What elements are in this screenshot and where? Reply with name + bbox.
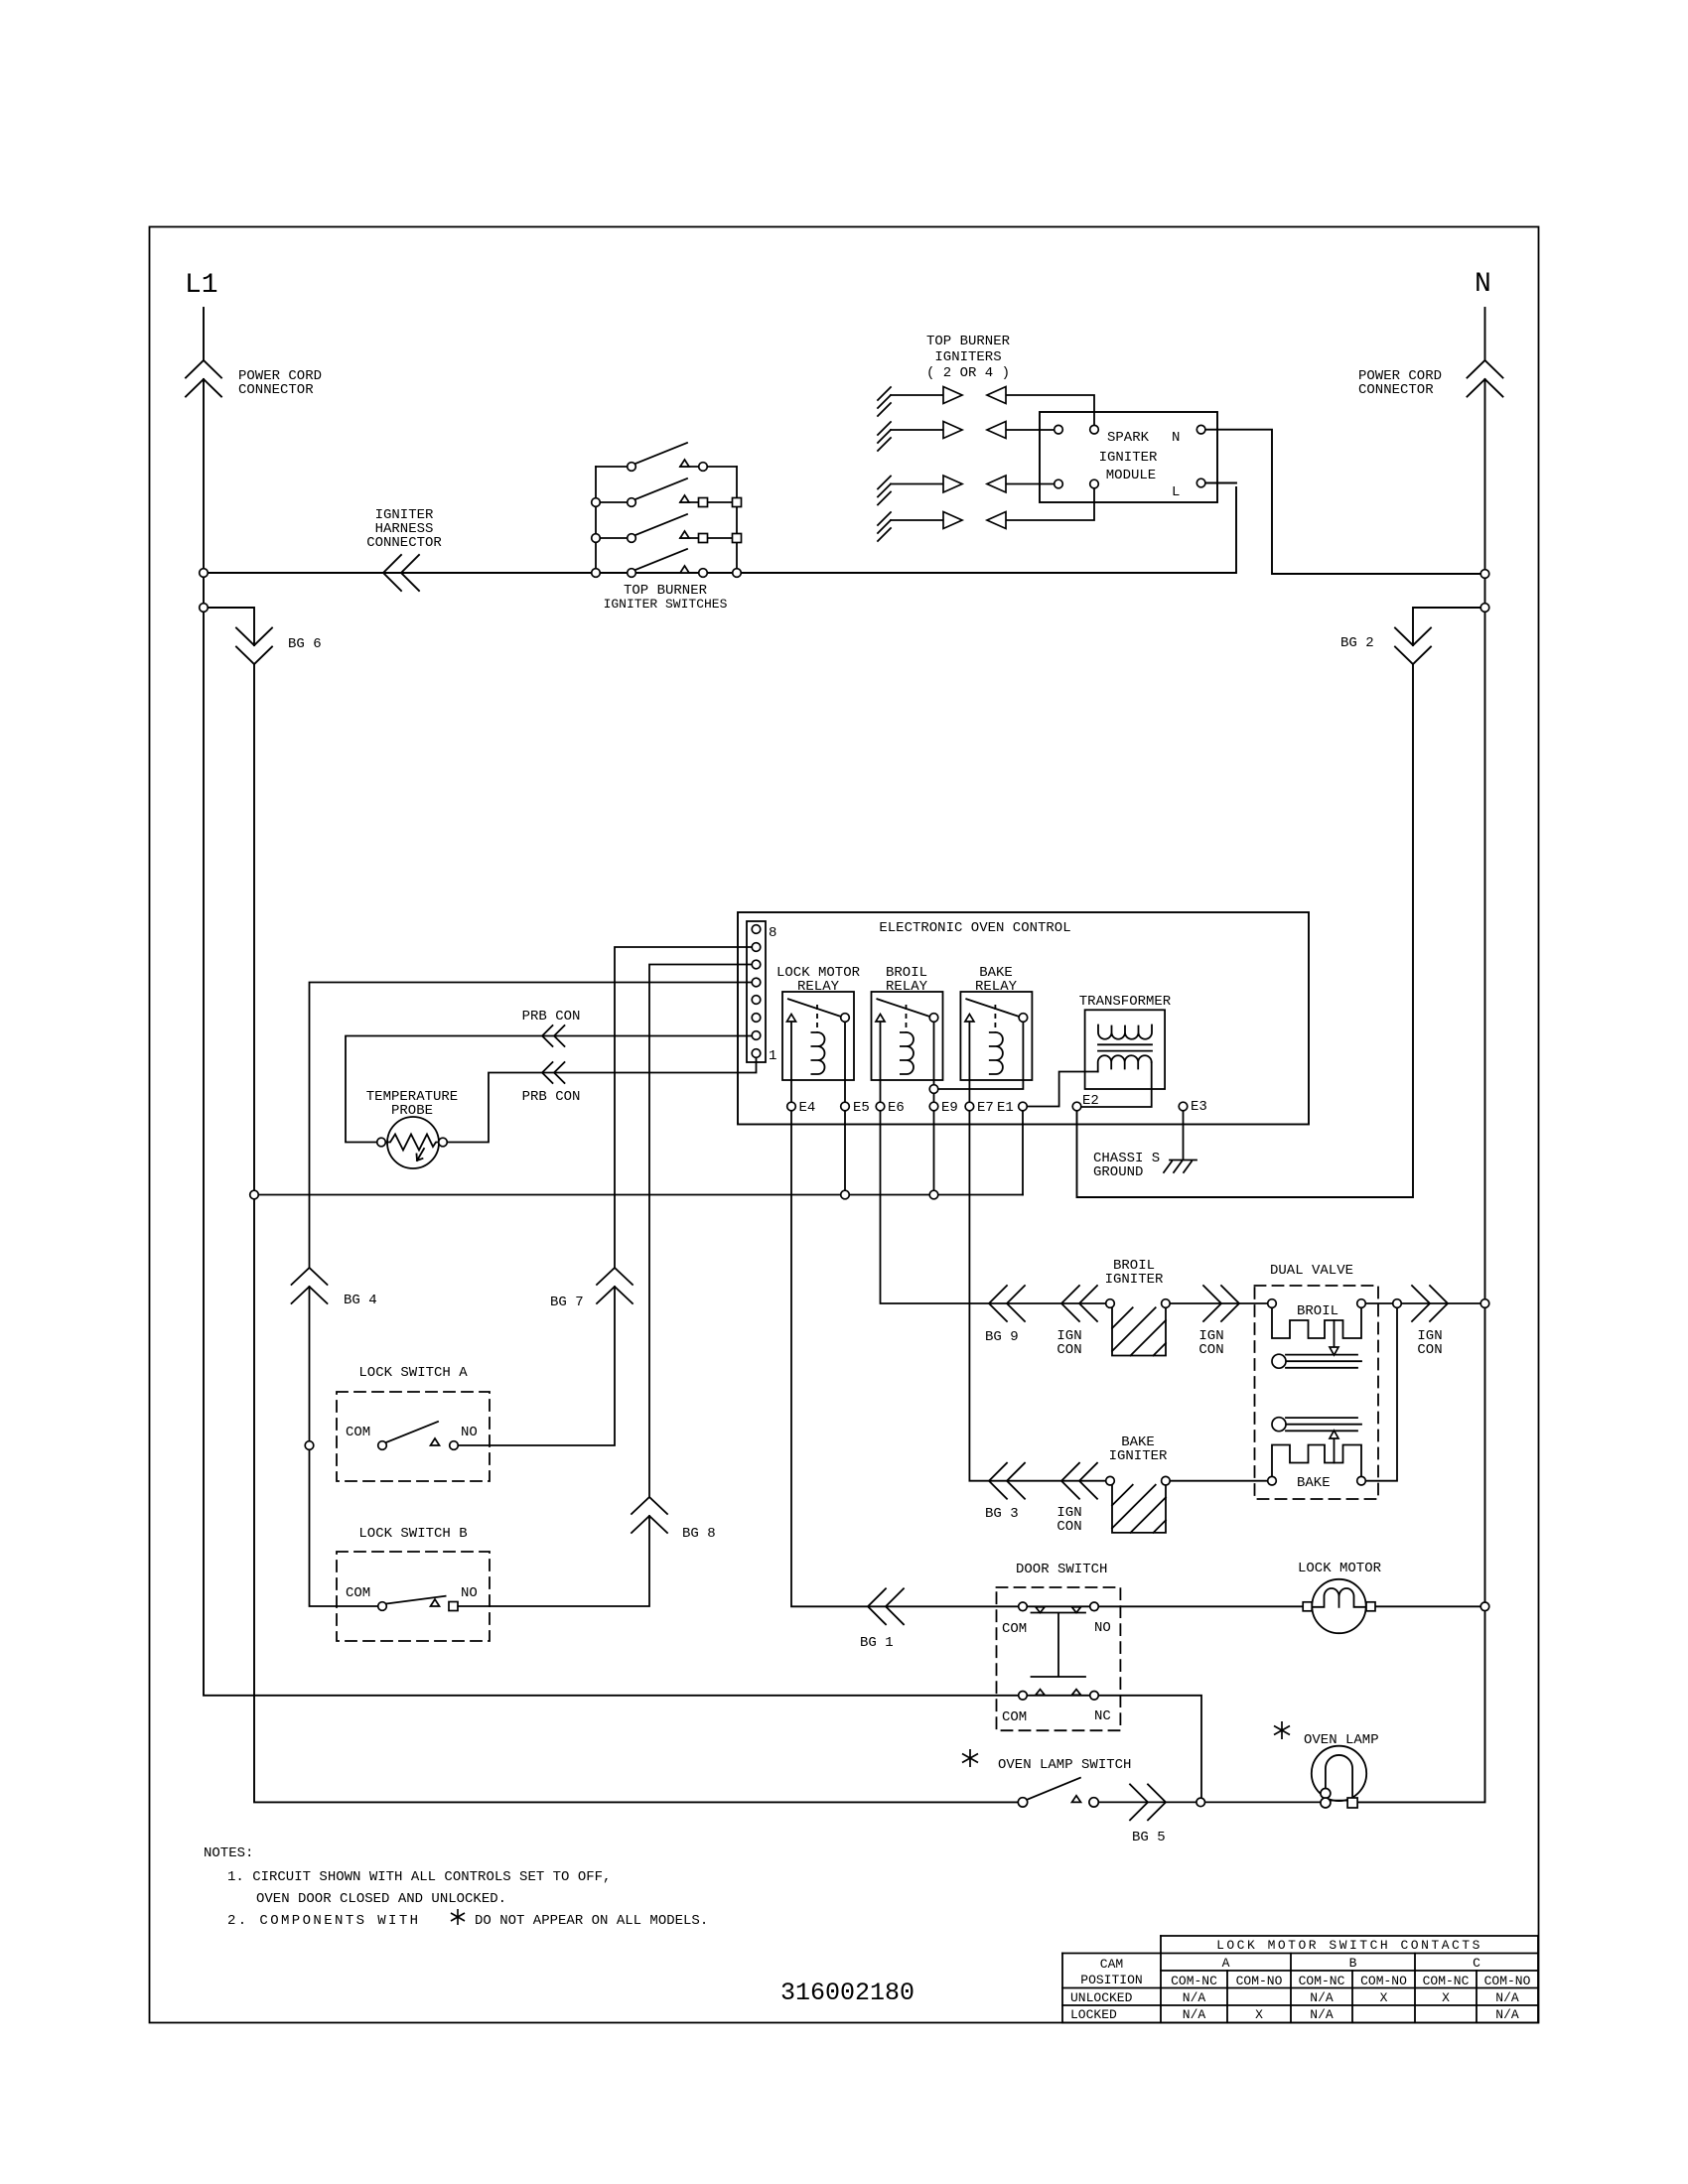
svg-text:1: 1 xyxy=(769,1048,776,1064)
lock motor terminals xyxy=(1303,1602,1312,1611)
svg-text:CONNECTOR: CONNECTOR xyxy=(238,382,314,398)
module terminal L xyxy=(1196,478,1205,487)
chassis ground symbol xyxy=(1164,1160,1196,1173)
node inner bus y1203 xyxy=(250,1190,259,1199)
svg-text:COM: COM xyxy=(1002,1621,1027,1637)
terminal E4 xyxy=(787,1102,796,1111)
svg-text:LOCK MOTOR SWITCH CONTACTS: LOCK MOTOR SWITCH CONTACTS xyxy=(1216,1938,1482,1953)
terminal E5 xyxy=(841,1102,850,1111)
svg-text:RELAY: RELAY xyxy=(886,979,928,995)
svg-text:E3: E3 xyxy=(1191,1099,1207,1115)
switch terminal circles/squares right xyxy=(699,463,708,472)
svg-text:IGNITER: IGNITER xyxy=(1105,1272,1164,1288)
svg-text:N/A: N/A xyxy=(1183,2007,1206,2022)
svg-text:PRB CON: PRB CON xyxy=(522,1009,581,1024)
svg-text:COM-NC: COM-NC xyxy=(1171,1974,1217,1988)
svg-text:N/A: N/A xyxy=(1183,1990,1206,2005)
svg-text:2. COMPONENTS WITH: 2. COMPONENTS WITH xyxy=(227,1913,420,1929)
oven lamp switch blade xyxy=(1028,1778,1080,1800)
svg-text:BG 4: BG 4 xyxy=(344,1293,377,1308)
module terminal N xyxy=(1196,425,1205,434)
door switch bottom triangles (up) xyxy=(1036,1690,1045,1696)
wire relay2 common to E9 xyxy=(933,1022,935,1102)
node at valve right xyxy=(1393,1299,1402,1308)
svg-text:TOP BURNER: TOP BURNER xyxy=(926,334,1011,349)
svg-text:NO: NO xyxy=(1094,1620,1111,1636)
power cord connector right (double chevron up) xyxy=(1468,360,1503,397)
lock switch A terminals xyxy=(378,1441,387,1450)
transformer primary winding xyxy=(1098,1025,1152,1039)
svg-text:COM: COM xyxy=(346,1425,370,1440)
wire lock motor to right bus xyxy=(1375,1605,1480,1607)
svg-text:E2: E2 xyxy=(1082,1093,1099,1109)
wire E3 to chassis ground xyxy=(1183,1111,1185,1160)
igniter switch row 4 xyxy=(635,549,687,570)
svg-text:8: 8 xyxy=(769,925,776,941)
node L1 stub xyxy=(200,604,209,613)
bank bus nodes xyxy=(592,498,601,507)
wire igniter row 1 xyxy=(891,395,1094,425)
svg-text:B: B xyxy=(1349,1956,1357,1971)
probe resistor zigzag xyxy=(385,1135,438,1151)
svg-text:N/A: N/A xyxy=(1495,1990,1519,2005)
wire E7 down to bake igniter row xyxy=(969,1111,1105,1481)
wire igniter row 3 xyxy=(891,483,1055,485)
electronic oven control box xyxy=(738,912,1309,1125)
wire door switch top row between contacts xyxy=(1027,1605,1089,1607)
svg-text:CAM: CAM xyxy=(1100,1957,1123,1972)
svg-text:UNLOCKED: UNLOCKED xyxy=(1070,1990,1133,2005)
dual valve xyxy=(1255,1286,1481,1499)
wire bank left bus xyxy=(595,467,597,573)
connector BG 1 (double chevron left) xyxy=(868,1588,904,1624)
svg-text:E1: E1 xyxy=(997,1100,1014,1116)
transformer secondary winding xyxy=(1098,1055,1152,1071)
broil valve actuator arrow xyxy=(1334,1320,1336,1347)
bake valve actuator arrow xyxy=(1334,1438,1336,1463)
svg-text:X: X xyxy=(1442,1990,1450,2005)
svg-text:COM: COM xyxy=(1002,1709,1027,1725)
node main bus at L1 xyxy=(200,569,209,578)
terminal E7 xyxy=(965,1102,974,1111)
connector BG 2 (double chevron down) xyxy=(1395,628,1431,665)
svg-text:L1: L1 xyxy=(185,270,218,301)
node N bus lock motor row xyxy=(1480,1602,1489,1611)
junction node above E9 xyxy=(929,1085,938,1094)
wire right bus N down to oven lamp row xyxy=(1357,379,1484,1802)
svg-text:NO: NO xyxy=(461,1425,478,1440)
wire broil igniter to dual valve xyxy=(1170,1302,1268,1304)
wire L1 left bus upper segment xyxy=(203,308,205,360)
svg-text:BROIL: BROIL xyxy=(1297,1303,1338,1319)
wire pin 7 to PRB CON to probe left xyxy=(346,1036,752,1143)
wire E1 down to bus xyxy=(1022,1111,1024,1195)
valve arrowheads xyxy=(1330,1347,1338,1355)
connector BG 9 (double chevron left) xyxy=(989,1286,1025,1321)
svg-text:NO: NO xyxy=(461,1585,478,1601)
svg-text:OVEN DOOR CLOSED AND UNLOCKED.: OVEN DOOR CLOSED AND UNLOCKED. xyxy=(256,1891,506,1907)
wire E9 down to bus xyxy=(933,1111,935,1195)
door switch plunger triangles (down) xyxy=(1036,1607,1045,1613)
svg-text:CONNECTOR: CONNECTOR xyxy=(1358,382,1434,398)
igniter electrode comb row 4 xyxy=(878,512,891,541)
svg-text:E4: E4 xyxy=(799,1100,816,1116)
svg-text:IGNITER: IGNITER xyxy=(1099,450,1158,466)
wire bus y1203 xyxy=(254,1194,1023,1196)
svg-text:DUAL VALVE: DUAL VALVE xyxy=(1270,1263,1353,1279)
wire door NO to lock motor xyxy=(1098,1605,1303,1607)
wire bake igniter to dual valve xyxy=(1170,1480,1268,1482)
oven lamp DS1 xyxy=(1312,1746,1366,1801)
svg-text:PRB CON: PRB CON xyxy=(522,1089,581,1105)
asterisk (oven lamp switch) xyxy=(962,1749,978,1767)
connector PRB CON upper (double chevron left) xyxy=(542,1025,565,1046)
wire BG2 down to E2 feed xyxy=(1077,664,1414,1197)
wire relay3 common to E9 node xyxy=(938,1022,1024,1089)
wire relay3 coil to E7 xyxy=(968,1080,970,1102)
wire relay1 common to E5 xyxy=(844,1022,846,1102)
connector igniter harness (double chevron left) on main bus xyxy=(383,555,419,591)
connector PRB CON lower (double chevron left) xyxy=(542,1062,565,1083)
bake igniter terminals xyxy=(1106,1476,1115,1485)
wire broil valve out to right bus xyxy=(1365,1302,1480,1304)
wire door NC down to lamp row node xyxy=(1098,1696,1201,1798)
svg-text:COM-NC: COM-NC xyxy=(1299,1974,1345,1988)
wire pin 4 to BG4 to lock switches xyxy=(310,983,753,1607)
svg-text:IGNITER: IGNITER xyxy=(1109,1448,1168,1464)
wire stub node to inner bus BG6 xyxy=(204,608,254,645)
node N bus y612 xyxy=(1480,604,1489,613)
svg-text:POSITION: POSITION xyxy=(1080,1973,1142,1987)
svg-text:IGNITERS: IGNITERS xyxy=(934,349,1001,365)
lock switch B xyxy=(337,1552,490,1641)
svg-text:A: A xyxy=(1222,1956,1230,1971)
relay K3 bake relay xyxy=(960,992,1032,1080)
svg-text:NC: NC xyxy=(1094,1708,1111,1724)
svg-text:MODULE: MODULE xyxy=(1106,468,1156,483)
transformer core xyxy=(1098,1044,1152,1050)
node N bus y578 xyxy=(1480,570,1489,579)
wire door switch bottom row between contacts xyxy=(1027,1695,1089,1697)
svg-text:316002180: 316002180 xyxy=(780,1979,914,2007)
switch contact triangles rows 1-4 xyxy=(680,460,689,467)
lock switch B blade xyxy=(386,1596,446,1604)
connector BG 6 (double chevron down) xyxy=(236,628,272,665)
oven lamp switch xyxy=(1028,1778,1321,1821)
node N bus broil row xyxy=(1480,1299,1489,1308)
svg-text:SPARK: SPARK xyxy=(1107,430,1150,446)
svg-text:ELECTRONIC OVEN CONTROL: ELECTRONIC OVEN CONTROL xyxy=(879,920,1070,936)
lock switch A xyxy=(337,1392,490,1481)
connector BG 4 (double chevron up) xyxy=(292,1268,328,1303)
svg-text:COM-NO: COM-NO xyxy=(1236,1974,1283,1988)
connector BG 8 (double chevron up) xyxy=(632,1497,667,1533)
connector BG 3 (double chevron left) xyxy=(989,1463,1025,1499)
svg-text:GROUND: GROUND xyxy=(1093,1164,1143,1180)
spark igniter module U1 xyxy=(1040,412,1217,502)
svg-text:CON: CON xyxy=(1198,1342,1223,1358)
svg-text:( 2 OR 4 ): ( 2 OR 4 ) xyxy=(926,365,1010,381)
svg-text:BG 3: BG 3 xyxy=(985,1506,1019,1522)
svg-text:COM-NC: COM-NC xyxy=(1423,1974,1470,1988)
transformer T1 xyxy=(254,1010,1196,1624)
svg-text:COM-NO: COM-NO xyxy=(1484,1974,1531,1988)
igniter switch row 1 xyxy=(596,443,737,467)
gas pipe circles xyxy=(1272,1354,1286,1368)
svg-text:LOCK SWITCH B: LOCK SWITCH B xyxy=(358,1526,467,1542)
lock switch B terminals xyxy=(378,1602,387,1611)
svg-text:E7: E7 xyxy=(977,1100,994,1116)
wire pin 1 to PRB CON to probe right xyxy=(447,1057,756,1142)
probe terminals xyxy=(377,1138,386,1147)
svg-text:CON: CON xyxy=(1056,1519,1081,1535)
svg-text:E6: E6 xyxy=(888,1100,905,1116)
wire relay2 coil to E6 xyxy=(880,1080,882,1102)
svg-text:RELAY: RELAY xyxy=(975,979,1018,995)
svg-text:CONNECTOR: CONNECTOR xyxy=(366,535,442,551)
wire spark module N lead to right bus xyxy=(1205,430,1485,574)
terminal E6 xyxy=(876,1102,885,1111)
module terminals xyxy=(1055,425,1063,434)
svg-text:L: L xyxy=(1172,484,1180,500)
probe thermistor arrow xyxy=(417,1149,425,1160)
svg-text:RELAY: RELAY xyxy=(797,979,840,995)
temperature probe RT1 xyxy=(385,1117,439,1168)
lamp filament horseshoe xyxy=(1326,1755,1352,1798)
svg-text:COM-NO: COM-NO xyxy=(1360,1974,1407,1988)
table lock motor switch contacts xyxy=(1062,1936,1538,2023)
broil igniter element xyxy=(1112,1286,1268,1356)
svg-text:X: X xyxy=(1255,2007,1263,2022)
broil igniter terminals xyxy=(1106,1299,1115,1308)
wire lamp switch to lamp xyxy=(1098,1801,1321,1803)
svg-text:C: C xyxy=(1473,1956,1480,1971)
connector IGN CON broil left (double chevron left) xyxy=(1061,1286,1097,1321)
svg-text:BG 1: BG 1 xyxy=(860,1635,894,1651)
connector IGN CON bake left (double chevron left) xyxy=(1061,1463,1097,1499)
terminal E2 xyxy=(1072,1102,1081,1111)
svg-text:BG 9: BG 9 xyxy=(985,1329,1019,1345)
connector J1 (8 pin) xyxy=(747,921,766,1062)
bake valve solenoid xyxy=(1272,1445,1361,1477)
wire pin 3 to BG8 to lock switch B NO xyxy=(458,965,752,1607)
svg-text:BG 6: BG 6 xyxy=(288,636,322,652)
igniter switch row 2 xyxy=(596,478,737,502)
svg-text:BAKE: BAKE xyxy=(1297,1475,1331,1491)
asterisk (note 2) xyxy=(451,1909,465,1925)
connector IGN CON valve right (double chevron right) xyxy=(1412,1286,1448,1321)
relay common contact circles xyxy=(841,1014,850,1023)
svg-text:BG 5: BG 5 xyxy=(1132,1830,1166,1845)
wire relay1 coil to E4 xyxy=(790,1080,792,1102)
svg-text:N: N xyxy=(1172,430,1180,446)
node lamp row xyxy=(1196,1798,1205,1807)
svg-text:CON: CON xyxy=(1417,1342,1442,1358)
wire valve node down to bake row xyxy=(1365,1307,1397,1480)
wire E5 down to bus xyxy=(844,1111,846,1195)
lock switch A blade xyxy=(386,1422,438,1442)
connector IGN CON broil right (double chevron right) xyxy=(1203,1286,1239,1321)
relay K1 lock motor relay xyxy=(782,992,854,1080)
lock motor M1 xyxy=(1312,1579,1366,1633)
svg-text:BG 7: BG 7 xyxy=(550,1295,584,1310)
connector BG 7 (double chevron up) xyxy=(597,1268,633,1303)
terminal E3 xyxy=(1179,1102,1188,1111)
svg-text:OVEN LAMP: OVEN LAMP xyxy=(1304,1732,1379,1748)
node on BG4 at lock switch A xyxy=(305,1441,314,1450)
terminal E9 xyxy=(929,1102,938,1111)
node E9 bus xyxy=(929,1190,938,1199)
svg-text:N: N xyxy=(1475,269,1491,300)
relay armature triangles xyxy=(787,1015,796,1023)
svg-text:N/A: N/A xyxy=(1310,1990,1334,2005)
door switch bottom terminals COM / NC xyxy=(1019,1692,1028,1701)
wire main bus L1 row y577 to spark module L lead xyxy=(204,483,1236,574)
bake igniter element xyxy=(1112,1481,1268,1533)
svg-text:LOCK MOTOR: LOCK MOTOR xyxy=(1298,1561,1382,1576)
wire right bus N upper segment xyxy=(1484,308,1486,360)
door switch actuator T-bar xyxy=(1032,1613,1086,1678)
wire L1 left bus down to door switch COM row then right xyxy=(204,379,1019,1696)
wire igniter row 4 xyxy=(891,488,1094,520)
igniter electrode comb row 3 xyxy=(878,477,891,505)
svg-text:N/A: N/A xyxy=(1495,2007,1519,2022)
svg-text:DO NOT APPEAR ON ALL MODELS.: DO NOT APPEAR ON ALL MODELS. xyxy=(475,1913,708,1929)
wire E4 down to door switch COM via BG1 xyxy=(791,1111,1019,1607)
broil valve solenoid xyxy=(1272,1307,1361,1338)
wire E6 down to broil igniter row xyxy=(881,1111,1106,1303)
power cord connector left (double chevron up) xyxy=(186,360,221,397)
wire bank right bus xyxy=(736,467,738,573)
svg-text:CON: CON xyxy=(1056,1342,1081,1358)
lock motor winding xyxy=(1312,1588,1366,1607)
igniter electrode comb row 2 xyxy=(878,422,891,451)
bake gas outlet pipe xyxy=(1286,1418,1361,1431)
border frame xyxy=(150,227,1539,2023)
dual valve terminals xyxy=(1268,1299,1277,1308)
switch terminal circles left xyxy=(628,463,636,472)
svg-text:BG 2: BG 2 xyxy=(1340,635,1374,651)
svg-text:X: X xyxy=(1380,1990,1388,2005)
svg-text:PROBE: PROBE xyxy=(391,1103,433,1119)
svg-text:OVEN LAMP SWITCH: OVEN LAMP SWITCH xyxy=(998,1757,1131,1773)
asterisk (oven lamp) xyxy=(1274,1721,1290,1739)
svg-text:E5: E5 xyxy=(853,1100,870,1116)
spark gap arrow pairs (right and left open triangles) xyxy=(943,387,962,404)
svg-text:TRANSFORMER: TRANSFORMER xyxy=(1079,994,1172,1010)
relay K2 broil relay xyxy=(872,992,943,1080)
connector pins 8..1 xyxy=(752,925,761,934)
svg-text:E9: E9 xyxy=(941,1100,958,1116)
svg-text:NOTES:: NOTES: xyxy=(204,1845,253,1861)
door switch xyxy=(997,1587,1481,1798)
svg-text:IGNITER SWITCHES: IGNITER SWITCHES xyxy=(604,597,728,612)
lamp terminals xyxy=(1321,1789,1331,1799)
svg-text:N/A: N/A xyxy=(1310,2007,1334,2022)
wire inner bus from BG6 down to oven lamp switch row xyxy=(254,664,1018,1802)
top burner igniter switches bank xyxy=(596,443,737,573)
svg-text:DOOR SWITCH: DOOR SWITCH xyxy=(1016,1562,1107,1577)
wire node to BG2 drop xyxy=(1413,608,1485,645)
top burner igniters xyxy=(878,387,1094,541)
wire pin 2 to BG7 to lock switch A NO xyxy=(458,947,752,1445)
svg-text:BG 8: BG 8 xyxy=(682,1526,716,1542)
igniter electrode comb row 1 xyxy=(878,387,891,416)
svg-text:LOCKED: LOCKED xyxy=(1070,2007,1117,2022)
connector BG 5 (double chevron right) xyxy=(1130,1784,1166,1820)
igniter switch row 3 xyxy=(596,514,737,538)
terminal E1 xyxy=(1019,1102,1028,1111)
svg-text:LOCK SWITCH A: LOCK SWITCH A xyxy=(358,1365,468,1381)
wire transformer secondary right to E2 xyxy=(1081,1062,1152,1107)
svg-text:COM: COM xyxy=(346,1585,370,1601)
wire E1 to transformer secondary left xyxy=(1027,1072,1097,1107)
door switch top terminals COM / NO xyxy=(1019,1602,1028,1611)
svg-text:1. CIRCUIT SHOWN WITH ALL CON: 1. CIRCUIT SHOWN WITH ALL CONTROLS SET T… xyxy=(227,1869,611,1885)
node E5 bus xyxy=(841,1190,850,1199)
oven lamp switch terminals xyxy=(1018,1798,1027,1807)
wire igniter row 2 xyxy=(891,429,1055,431)
broil gas outlet pipe xyxy=(1286,1355,1361,1368)
